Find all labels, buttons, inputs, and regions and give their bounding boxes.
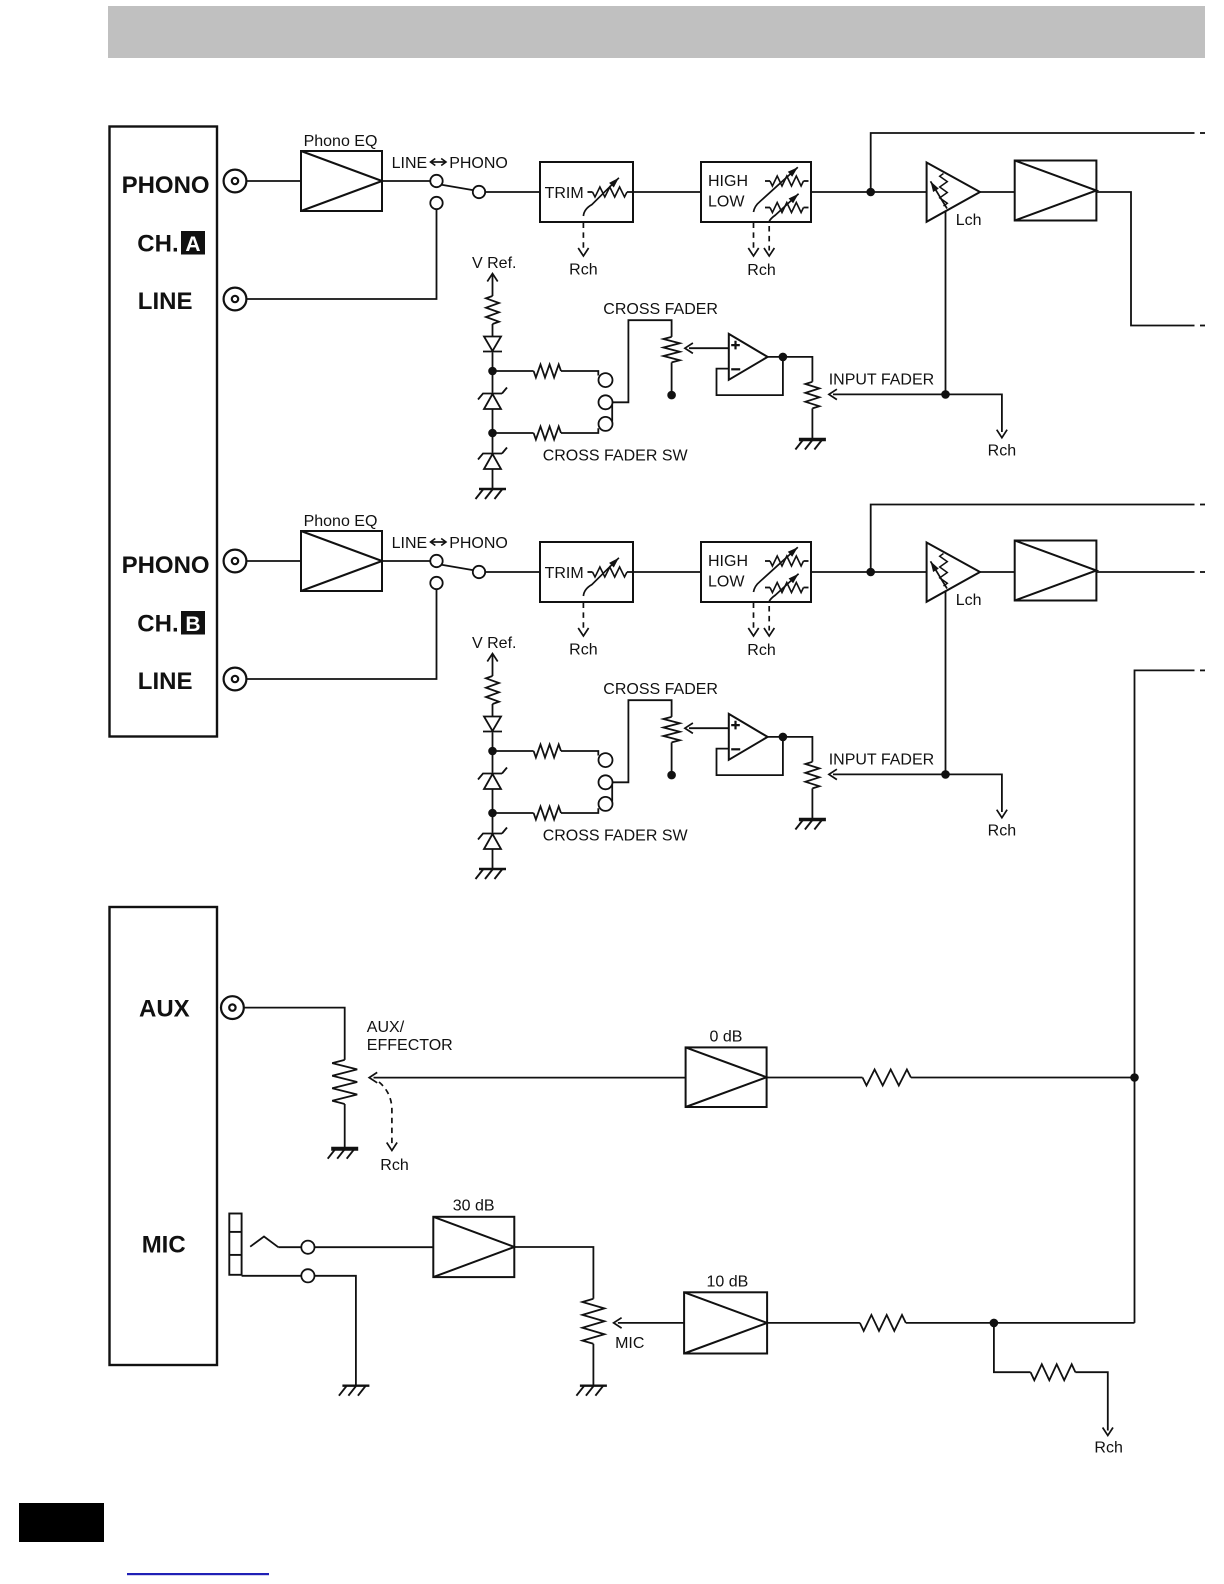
resistor vref (CH A) — [486, 296, 499, 324]
trim resistor lead right (CH B) — [627, 571, 632, 573]
wire mic sleeve to ground — [315, 1276, 356, 1385]
mic contact tip — [301, 1241, 314, 1254]
ground mic sleeve — [339, 1386, 370, 1396]
ground mic pot — [576, 1386, 607, 1396]
op-amp output wire (CH B) — [768, 737, 813, 762]
low wiper arrow (CH B) — [769, 574, 798, 602]
wire buffer output (CH B) — [1096, 571, 1194, 573]
mic wiper arrowhead — [614, 1318, 622, 1328]
xfader wiper arrowhead (CH A) — [685, 343, 693, 353]
resistor xfader sw bottom (CH A) — [534, 427, 561, 440]
zener diode 2 (CH A) — [478, 448, 507, 470]
svg-text:HIGH: HIGH — [708, 173, 748, 190]
wire pole to xfader pot (CH B) — [613, 700, 672, 782]
trim wiper arrow (CH A) — [583, 178, 619, 216]
output buffer amp (CH A) — [1015, 161, 1097, 221]
Lch amp internal resistor (CH A) — [940, 174, 948, 207]
wire resistor to contact1 (CH A) — [561, 371, 598, 376]
wire HIGH-LOW to Lch amp (CH A) — [811, 191, 927, 193]
mic level pot — [582, 1299, 604, 1344]
node vref 2 (CH B) — [488, 809, 497, 818]
black footer block — [19, 1503, 104, 1542]
low resistor lead right (CH A) — [804, 207, 809, 209]
RCA jack PHONO (CH B) — [224, 550, 247, 573]
ground aux pot — [328, 1149, 359, 1159]
high resistor lead left (CH B) — [765, 560, 770, 562]
wire mic switch to contact — [278, 1246, 301, 1248]
mic Rch arrowhead — [1103, 1428, 1113, 1436]
op-amp plus sign (CH B) — [731, 721, 740, 730]
svg-text:PHONO: PHONO — [122, 552, 210, 579]
high Rch dashed line (CH B) — [753, 603, 755, 631]
low variable resistor (CH B) — [770, 583, 804, 593]
input panel box CH A/B — [110, 127, 218, 737]
trim variable resistor (CH B) — [593, 567, 628, 577]
wire mic contact to 30dB amp — [315, 1246, 434, 1248]
mic switch blade — [250, 1237, 278, 1248]
svg-text:Lch: Lch — [956, 212, 982, 229]
switch blade (CH A) — [442, 185, 474, 191]
wire zener2 to ground (CH A) — [492, 469, 494, 489]
op-amp (CH B) — [729, 714, 768, 760]
switch contact phono (CH A) — [430, 175, 442, 187]
wire buffer output (CH A) — [1096, 192, 1194, 326]
output buffer amp (CH B) — [1015, 541, 1097, 601]
RCA jack PHONO (CH A) — [224, 170, 247, 193]
wire mic node to Rch resistor — [994, 1323, 1031, 1372]
cross fader pot (CH A) — [663, 337, 679, 363]
RCA jack LINE (CH B) — [224, 668, 247, 691]
aux Rch dashed curve — [379, 1082, 392, 1145]
wire mic jack sleeve — [242, 1275, 302, 1277]
trim Rch arrowhead (CH B) — [578, 628, 588, 636]
ground vref (CH B) — [476, 869, 507, 879]
wire zener1 to node2 (CH B) — [492, 789, 494, 833]
svg-text:Rch: Rch — [747, 262, 775, 279]
mic wiper line to 10dB amp — [618, 1322, 684, 1324]
switch pole (CH B) — [473, 566, 485, 578]
Lch variable amp triangle (CH B) — [927, 543, 980, 602]
wire xfader pot to dot (CH B) — [671, 742, 673, 771]
op-amp feedback loop (CH B) — [717, 738, 783, 775]
wire HIGH-LOW to Lch amp (CH B) — [811, 571, 927, 573]
svg-text:CROSS FADER: CROSS FADER — [603, 301, 718, 318]
svg-text:PHONO: PHONO — [122, 172, 210, 199]
switch contact line (CH B) — [430, 577, 442, 589]
V Ref arrowhead (CH B) — [487, 654, 497, 662]
wire switch to TRIM (CH A) — [485, 191, 540, 193]
amp 30 dB — [433, 1217, 514, 1277]
svg-text:PHONO: PHONO — [449, 535, 508, 552]
wire TRIM to HIGH-LOW (CH A) — [633, 191, 701, 193]
Lch amp control arrow (CH A) — [931, 181, 948, 208]
svg-text:CH.: CH. — [137, 611, 178, 638]
low Rch dashed line (CH B) — [768, 606, 770, 631]
wire resistor to contact2 (CH A) — [561, 428, 598, 433]
svg-text:TRIM: TRIM — [545, 565, 584, 582]
trim Rch arrowhead (CH A) — [578, 248, 588, 256]
switch contact phono (CH B) — [430, 555, 442, 567]
op-amp minus sign (CH B) — [731, 748, 740, 750]
effector return line from page edge — [1135, 670, 1195, 1323]
resistor xfader sw top (CH B) — [534, 745, 561, 758]
resistor mic Rch — [1031, 1364, 1076, 1380]
wire 0dB amp to resistor — [767, 1077, 863, 1079]
input fader wiper line (CH B) — [833, 774, 1002, 812]
high wiper arrow (CH B) — [754, 547, 798, 592]
trim resistor lead left (CH A) — [588, 191, 593, 193]
svg-text:Phono EQ: Phono EQ — [304, 513, 378, 530]
RCA jack AUX — [221, 996, 244, 1019]
low Rch arrowhead (CH A) — [764, 248, 774, 256]
svg-text:CH.: CH. — [137, 231, 178, 258]
svg-text:Rch: Rch — [988, 823, 1016, 840]
low resistor lead right (CH B) — [804, 587, 809, 589]
resistor aux mix — [863, 1070, 911, 1086]
input fader pot (CH A) — [805, 382, 819, 409]
svg-text:CROSS FADER SW: CROSS FADER SW — [543, 827, 689, 844]
high Rch arrowhead (CH A) — [748, 248, 758, 256]
svg-text:Rch: Rch — [747, 642, 775, 659]
wire zener1 to node2 (CH A) — [492, 409, 494, 453]
op-amp output node (CH B) — [779, 733, 788, 742]
svg-text:CROSS FADER SW: CROSS FADER SW — [543, 447, 689, 464]
V Ref stem (CH A) — [492, 275, 494, 297]
wire 30dB amp to mic pot — [514, 1247, 593, 1299]
svg-text:AUX/: AUX/ — [367, 1019, 405, 1036]
Lch variable amp triangle (CH A) — [927, 163, 980, 222]
wire aux jack to pot — [244, 1008, 345, 1060]
svg-text:HIGH: HIGH — [708, 553, 748, 570]
op-amp plus sign (CH A) — [731, 341, 740, 350]
page-break dash top (CH A) — [1200, 132, 1205, 134]
V Ref arrowhead (CH A) — [487, 274, 497, 282]
wire phono jack to EQ (CH B) — [247, 560, 302, 562]
svg-text:LINE: LINE — [392, 535, 428, 552]
svg-text:V Ref.: V Ref. — [472, 635, 516, 652]
wire vref res to diode (CH A) — [492, 324, 494, 337]
HIGH LOW box (CH A) — [701, 162, 811, 222]
svg-text:0 dB: 0 dB — [710, 1029, 743, 1046]
node after eq (CH A) — [866, 188, 875, 197]
svg-text:Rch: Rch — [1094, 1440, 1122, 1457]
wiper control node (CH B) — [941, 770, 950, 779]
svg-text:A: A — [185, 233, 200, 256]
xfader sw blade (CH A) — [611, 405, 613, 422]
wire EQ to switch (CH B) — [382, 560, 430, 562]
wire node2 to resistor (CH B) — [493, 812, 534, 814]
node mic joins bus — [990, 1319, 999, 1328]
wire 10dB amp to resistor — [767, 1322, 860, 1324]
high resistor lead left (CH A) — [765, 180, 770, 182]
input fader wiper arrowhead (CH A) — [829, 389, 837, 399]
mic contact sleeve — [301, 1269, 314, 1282]
page-break dash output (CH B) — [1200, 571, 1205, 573]
wire EQ to switch (CH A) — [382, 180, 430, 182]
wire resistor to contact2 (CH B) — [561, 808, 598, 813]
wire input fader to ground (CH A) — [811, 408, 813, 439]
high Rch dashed line (CH A) — [753, 223, 755, 251]
op-amp (CH A) — [729, 334, 768, 380]
svg-text:EFFECTOR: EFFECTOR — [367, 1037, 453, 1054]
wire resistor to mic node — [906, 1322, 1135, 1324]
wire phono jack to EQ (CH A) — [247, 180, 302, 182]
wire node2 to resistor (CH A) — [493, 432, 534, 434]
control line to Lch amp (CH A) — [945, 211, 947, 395]
aux effector pot — [332, 1060, 357, 1104]
op-amp output node (CH A) — [779, 353, 788, 362]
wire pole to xfader pot (CH A) — [613, 320, 672, 402]
double arrow glyph (CH A) — [431, 159, 447, 166]
wire node1 to resistor (CH B) — [493, 750, 534, 752]
svg-text:LINE: LINE — [392, 155, 428, 172]
xfader pot end dot (CH B) — [667, 771, 676, 780]
xfader sw pole (CH A) — [599, 395, 613, 409]
wire mic pot to ground — [592, 1344, 594, 1385]
switch contact line (CH A) — [430, 197, 442, 209]
svg-text:Rch: Rch — [988, 443, 1016, 460]
amp 10 dB — [684, 1292, 767, 1353]
svg-text:30 dB: 30 dB — [453, 1197, 495, 1214]
xfader sw contact 1 (CH B) — [599, 753, 613, 767]
svg-text:Rch: Rch — [380, 1157, 408, 1174]
wire xfader pot to dot (CH A) — [671, 362, 673, 391]
zener diode 1 (CH A) — [478, 388, 507, 410]
diode vref (CH B) — [483, 717, 502, 732]
xfader sw contact 1 (CH A) — [599, 373, 613, 387]
black square B — [181, 611, 205, 635]
svg-text:INPUT FADER: INPUT FADER — [829, 372, 935, 389]
wire vref res to diode (CH B) — [492, 704, 494, 717]
low Rch dashed line (CH A) — [768, 226, 770, 251]
double arrow glyph (CH B) — [431, 539, 447, 546]
black square A — [181, 231, 205, 255]
input fader wiper arrowhead (CH B) — [829, 769, 837, 779]
trim variable resistor (CH A) — [593, 187, 628, 197]
wire input fader to ground (CH B) — [811, 788, 813, 819]
node vref 2 (CH A) — [488, 429, 497, 438]
xfader sw blade (CH B) — [611, 785, 613, 802]
phono EQ amp (CH A) — [301, 151, 382, 211]
xfader wiper line (CH B) — [689, 727, 729, 729]
xfader sw contact 2 (CH B) — [599, 797, 613, 811]
switch blade (CH B) — [442, 565, 474, 571]
low resistor lead left (CH A) — [765, 207, 770, 209]
wire node to top bus (CH A) — [871, 133, 1195, 192]
wire Lch amp to buffer (CH A) — [980, 191, 1015, 193]
high variable resistor (CH B) — [770, 556, 804, 566]
node after eq (CH B) — [866, 568, 875, 577]
svg-text:Rch: Rch — [569, 262, 597, 279]
ground input fader (CH A) — [795, 440, 826, 450]
svg-text:LINE: LINE — [138, 288, 193, 315]
svg-text:B: B — [185, 613, 200, 636]
HIGH LOW box (CH B) — [701, 542, 811, 602]
node vref 1 (CH A) — [488, 367, 497, 376]
Rch send arrowhead (CH B) — [997, 810, 1007, 818]
aux Rch arrowhead — [387, 1143, 397, 1151]
control line to Lch amp (CH B) — [945, 591, 947, 775]
svg-text:MIC: MIC — [142, 1232, 186, 1259]
wire Rch resistor down — [1075, 1372, 1107, 1430]
op-amp feedback loop (CH A) — [717, 358, 783, 395]
wire line jack to switch (CH A) — [247, 209, 437, 299]
op-amp output wire (CH A) — [768, 357, 813, 382]
wire zener2 to ground (CH B) — [492, 849, 494, 869]
Rch send arrowhead (CH A) — [997, 430, 1007, 438]
resistor vref (CH B) — [486, 676, 499, 704]
trim resistor lead right (CH A) — [627, 191, 632, 193]
Lch amp internal resistor (CH B) — [940, 554, 948, 587]
svg-text:LOW: LOW — [708, 194, 745, 211]
input fader wiper line (CH A) — [833, 394, 1002, 432]
svg-text:Phono EQ: Phono EQ — [304, 133, 378, 150]
wire Lch amp to buffer (CH B) — [980, 571, 1015, 573]
wire TRIM to HIGH-LOW (CH B) — [633, 571, 701, 573]
wire node to top bus (CH B) — [871, 505, 1195, 573]
svg-text:10 dB: 10 dB — [707, 1274, 749, 1291]
RCA jack LINE (CH A) — [224, 288, 247, 311]
zener diode 1 (CH B) — [478, 768, 507, 790]
svg-text:LOW: LOW — [708, 574, 745, 591]
wire resistor to bus — [911, 1077, 1135, 1079]
high resistor lead right (CH A) — [804, 180, 809, 182]
svg-text:INPUT FADER: INPUT FADER — [829, 752, 935, 769]
zener diode 2 (CH B) — [478, 828, 507, 850]
svg-text:Lch: Lch — [956, 592, 982, 609]
high Rch arrowhead (CH B) — [748, 628, 758, 636]
trim resistor lead left (CH B) — [588, 571, 593, 573]
blue footer line — [127, 1573, 269, 1575]
aux wiper arrowhead — [369, 1072, 377, 1082]
input panel box AUX/MIC — [110, 907, 218, 1365]
node vref 1 (CH B) — [488, 747, 497, 756]
svg-text:AUX: AUX — [139, 995, 190, 1022]
wiper control node (CH A) — [941, 390, 950, 399]
Lch amp control arrow (CH B) — [931, 561, 948, 588]
xfader wiper arrowhead (CH B) — [685, 723, 693, 733]
wire aux pot to ground — [344, 1104, 346, 1148]
trim wiper arrow (CH B) — [583, 558, 619, 596]
node aux joins bus — [1130, 1073, 1139, 1082]
diode vref (CH A) — [483, 337, 502, 352]
trim Rch dashed line (CH B) — [582, 603, 584, 631]
input fader pot (CH B) — [805, 762, 819, 789]
phono EQ amp (CH B) — [301, 531, 382, 591]
svg-text:Rch: Rch — [569, 642, 597, 659]
svg-text:TRIM: TRIM — [545, 185, 584, 202]
resistor xfader sw bottom (CH B) — [534, 807, 561, 820]
high wiper arrow (CH A) — [754, 167, 798, 212]
svg-text:PHONO: PHONO — [449, 155, 508, 172]
page-break dash output (CH A) — [1200, 325, 1205, 327]
trim Rch dashed line (CH A) — [582, 223, 584, 251]
wire diode to node1 (CH B) — [492, 733, 494, 773]
ground input fader (CH B) — [795, 820, 826, 830]
low resistor lead left (CH B) — [765, 587, 770, 589]
switch pole (CH A) — [473, 186, 485, 198]
xfader sw contact 2 (CH A) — [599, 417, 613, 431]
V Ref stem (CH B) — [492, 655, 494, 677]
svg-text:V Ref.: V Ref. — [472, 255, 516, 272]
high variable resistor (CH A) — [770, 176, 804, 186]
cross fader pot (CH B) — [663, 717, 679, 743]
svg-text:CROSS FADER: CROSS FADER — [603, 681, 718, 698]
page-break dash top (CH B) — [1200, 504, 1205, 506]
mic jack symbol — [229, 1214, 241, 1275]
op-amp minus sign (CH A) — [731, 368, 740, 370]
xfader sw pole (CH B) — [599, 775, 613, 789]
wire line jack to switch (CH B) — [247, 589, 437, 679]
TRIM box (CH A) — [540, 162, 633, 222]
page-break dash effector — [1200, 669, 1205, 671]
high resistor lead right (CH B) — [804, 560, 809, 562]
low Rch arrowhead (CH B) — [764, 628, 774, 636]
ground vref (CH A) — [476, 489, 507, 499]
wire node1 to resistor (CH A) — [493, 370, 534, 372]
xfader pot end dot (CH A) — [667, 391, 676, 400]
wire resistor to contact1 (CH B) — [561, 751, 598, 756]
low variable resistor (CH A) — [770, 203, 804, 213]
xfader wiper line (CH A) — [689, 347, 729, 349]
svg-text:LINE: LINE — [138, 668, 193, 695]
aux wiper line to 0dB amp — [374, 1077, 686, 1079]
resistor mic mix — [860, 1315, 906, 1331]
wire switch to TRIM (CH B) — [485, 571, 540, 573]
resistor xfader sw top (CH A) — [534, 365, 561, 378]
svg-text:MIC: MIC — [615, 1335, 644, 1352]
amp 0 dB — [686, 1047, 767, 1107]
gray header bar — [108, 6, 1205, 58]
low wiper arrow (CH A) — [769, 194, 798, 222]
TRIM box (CH B) — [540, 542, 633, 602]
wire diode to node1 (CH A) — [492, 353, 494, 393]
